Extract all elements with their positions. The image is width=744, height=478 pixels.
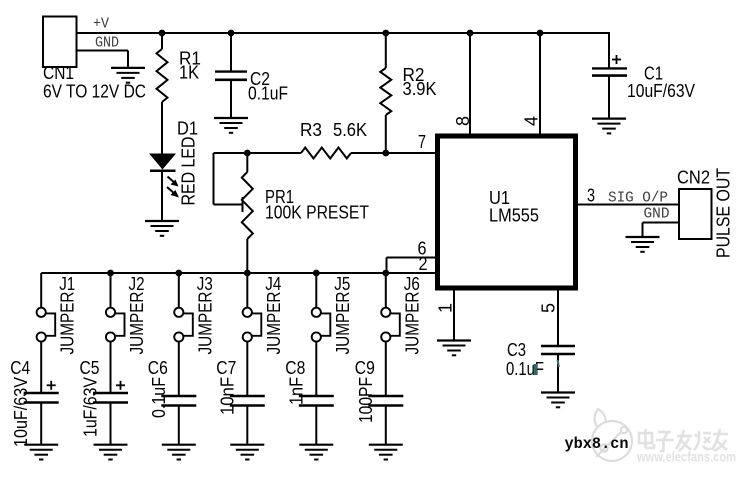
op IC U1 LM555: [438, 136, 576, 288]
jumper J2: [110, 273, 112, 308]
jumper J4: [246, 273, 248, 308]
ground (C1): [592, 117, 626, 119]
wire J5 to C8: [315, 342, 317, 396]
wire C2 bottom lead: [230, 81, 232, 117]
svg-text:C6: C6: [148, 358, 168, 378]
D1 light arrows: [167, 177, 179, 198]
svg-text:CN1: CN1: [43, 63, 74, 83]
svg-text:C3: C3: [507, 340, 526, 360]
ground (C8): [299, 444, 333, 446]
ground (pin1): [437, 339, 471, 341]
jumper J1: [40, 273, 42, 308]
CN2 connector: [679, 189, 712, 239]
svg-text:J3: J3: [197, 274, 213, 294]
node: +V junction at R1: [159, 30, 166, 37]
wire J3 to C6: [178, 342, 180, 396]
wire J6 to C9: [385, 342, 387, 396]
wire R2 top lead: [385, 33, 387, 68]
capacitor C6: [161, 395, 196, 397]
svg-text:www.elecfans.com: www.elecfans.com: [636, 450, 736, 465]
wire PR1 bottom lead: [246, 239, 248, 273]
svg-text:C7: C7: [216, 358, 236, 378]
PR1 wiper wires: [214, 152, 248, 154]
wire C1 bottom lead: [608, 76, 610, 118]
wire J4 to C7: [246, 342, 248, 396]
svg-text:C4: C4: [10, 358, 30, 378]
capacitor C3: [541, 345, 575, 347]
svg-text:1K: 1K: [179, 63, 199, 83]
wire R1 top lead: [161, 33, 163, 49]
capacitor C5 polarity +: [116, 384, 125, 386]
svg-text:0.1uF: 0.1uF: [248, 84, 288, 104]
wire pin 3: [576, 204, 679, 206]
svg-text:2: 2: [419, 254, 428, 274]
wire C2 top lead: [230, 33, 232, 71]
svg-text:LM555: LM555: [489, 206, 539, 226]
svg-text:PULSE OUT: PULSE OUT: [714, 168, 734, 258]
svg-text:J6: J6: [404, 274, 420, 294]
wire R2 bottom lead: [385, 115, 387, 153]
svg-text:100PF: 100PF: [356, 377, 376, 423]
wire CN2 GND: [643, 222, 680, 224]
svg-text:0.1uF: 0.1uF: [506, 359, 544, 379]
ground (CN2): [626, 236, 660, 238]
CN1 connector: [43, 17, 77, 68]
svg-text:JUMPER: JUMPER: [333, 292, 353, 355]
svg-text:J5: J5: [334, 274, 350, 294]
wire pin 8: [467, 30, 474, 37]
svg-text:SIG O/P: SIG O/P: [608, 190, 668, 207]
ground (D1): [145, 220, 179, 222]
wire C5 to ground: [110, 403, 112, 445]
svg-text:JUMPER: JUMPER: [195, 292, 215, 355]
PR1 wiper tick: [242, 197, 244, 212]
svg-text:1nF: 1nF: [286, 377, 306, 405]
svg-text:JUMPER: JUMPER: [127, 292, 147, 355]
wire pin 7: [386, 152, 437, 154]
wire pin 6: [387, 257, 438, 259]
wire J2 to C5: [110, 342, 112, 393]
svg-text:GND: GND: [95, 35, 119, 52]
node: pin7 junction: [382, 150, 389, 157]
capacitor C7: [230, 395, 265, 397]
ground (C5): [94, 444, 128, 446]
ground (C4): [24, 444, 58, 446]
svg-text:3: 3: [587, 186, 595, 206]
svg-text:JUMPER: JUMPER: [264, 292, 284, 355]
svg-text:5: 5: [539, 303, 559, 313]
wire C1 top lead: [608, 32, 610, 68]
svg-text:4: 4: [522, 116, 542, 126]
node: PR1 top junction: [244, 150, 251, 157]
svg-text:8: 8: [453, 116, 473, 126]
node: rail junction J4: [244, 270, 251, 277]
wire C8 to ground: [315, 406, 317, 445]
svg-text:J1: J1: [59, 274, 75, 294]
svg-text:C5: C5: [80, 358, 100, 378]
ground (C6): [162, 444, 196, 446]
svg-text:100K PRESET: 100K PRESET: [265, 203, 369, 223]
wire C9 to ground: [385, 406, 387, 445]
capacitor C2: [215, 70, 247, 72]
svg-text:RED LED: RED LED: [179, 137, 199, 206]
ground (C3): [541, 391, 575, 393]
node: +V junction at C2: [228, 30, 235, 37]
bottom rail wire (pin 2 net): [41, 272, 437, 274]
svg-text:C9: C9: [355, 358, 375, 378]
resistor R3: [301, 148, 351, 159]
jumper J5: [315, 273, 317, 308]
wire PR1 top lead: [246, 153, 248, 172]
svg-text:1: 1: [436, 303, 456, 313]
svg-text:ybx8.cn: ybx8.cn: [565, 435, 629, 453]
wire pin 4: [537, 30, 544, 37]
watermark artifacts (teal flecks): [534, 364, 538, 375]
svg-text:JUMPER: JUMPER: [58, 292, 78, 355]
capacitor C5: [93, 392, 128, 394]
preset PR1 body: [242, 172, 253, 239]
resistor R2: [380, 68, 391, 115]
svg-text:3.9K: 3.9K: [403, 79, 437, 99]
ground (CN1): [111, 67, 145, 69]
node: rail junction J3: [175, 270, 182, 277]
svg-text:5.6K: 5.6K: [333, 120, 367, 140]
top +V rail wire: [78, 32, 610, 34]
node: rail junction J5: [313, 270, 320, 277]
ground (C7): [230, 444, 264, 446]
svg-text:10nF: 10nF: [217, 377, 237, 415]
capacitor C4: [24, 392, 59, 394]
wire R1 to D1: [161, 102, 163, 154]
svg-text:10uF/63V: 10uF/63V: [627, 81, 695, 101]
LED D1: [149, 154, 176, 170]
wire R3 right lead: [351, 152, 386, 154]
capacitor C1 polarity +: [612, 59, 621, 61]
capacitor C1: [592, 67, 627, 69]
resistor R1: [157, 49, 168, 102]
svg-text:GND: GND: [644, 206, 670, 223]
wire C3 bottom lead: [557, 355, 559, 392]
node: rail junction J2: [107, 270, 114, 277]
wire pin 5: [557, 288, 559, 345]
node: rail junction J6: [382, 270, 389, 277]
jumper J6: [385, 273, 387, 308]
svg-text:JUMPER: JUMPER: [402, 292, 422, 355]
wire C7 to ground: [246, 406, 248, 445]
svg-text:1uF/63V: 1uF/63V: [81, 377, 101, 437]
svg-text:6V TO 12V DC: 6V TO 12V DC: [43, 82, 146, 102]
wire J1 to C4: [40, 342, 42, 393]
wire C6 to ground: [178, 406, 180, 445]
wire D1 cathode to ground: [161, 172, 163, 221]
ground (C9): [369, 444, 403, 446]
svg-text:+V: +V: [93, 16, 109, 33]
jumper J3: [178, 273, 180, 308]
svg-text:7: 7: [418, 132, 426, 152]
capacitor C9: [368, 395, 403, 397]
capacitor C4 polarity +: [47, 384, 56, 386]
svg-text:10uF/63V: 10uF/63V: [11, 377, 31, 447]
node: +V junction at R2: [382, 30, 389, 37]
svg-text:R3: R3: [300, 120, 322, 140]
svg-text:D1: D1: [177, 119, 198, 139]
watermark chinese text 电子发烧友 (approx strokes): [639, 429, 728, 451]
wire CN1 GND: [78, 50, 129, 52]
svg-text:CN2: CN2: [677, 168, 710, 188]
ground (C2): [214, 117, 248, 119]
wire C4 to ground: [40, 403, 42, 445]
watermark logo circle: [592, 409, 632, 461]
wire pin 1: [453, 288, 455, 340]
capacitor C8: [299, 395, 334, 397]
svg-text:0.1uF: 0.1uF: [149, 377, 169, 418]
svg-text:J2: J2: [129, 274, 145, 294]
svg-text:J4: J4: [265, 274, 281, 294]
wire R3 left lead: [247, 152, 301, 154]
svg-text:C8: C8: [285, 358, 305, 378]
